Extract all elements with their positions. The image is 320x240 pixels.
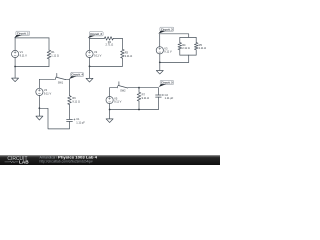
wire cap riser lower (circuit 5) <box>157 97 159 109</box>
svg-text:SW2: SW2 <box>120 90 126 93</box>
ground (circuit 2) <box>86 66 93 82</box>
wire left riser (circuit 5) <box>109 88 111 97</box>
value label R6 <box>72 96 80 103</box>
wire left lower (circuit 3) <box>159 54 161 63</box>
junction node R7 bottom (circuit 5) <box>138 109 140 111</box>
wire box top edge (circuit 3) <box>180 36 196 38</box>
ground (circuit 1) <box>12 67 19 82</box>
wire left lower (circuit 1) <box>14 57 16 66</box>
junction node (circuit 2) <box>89 66 91 68</box>
circuit 5 group <box>106 81 174 123</box>
junction node (circuit 3) <box>159 62 161 64</box>
wire left lower (circuit 5) <box>109 103 111 109</box>
wire right leg lower (circuit 3) <box>195 50 197 55</box>
wire top-left (circuit 4) <box>39 78 54 80</box>
value label C1 <box>76 117 85 124</box>
wire right upper (circuit 1) <box>48 38 50 50</box>
wire right leg upper (circuit 3) <box>195 37 197 42</box>
junction node (circuit 1) <box>14 66 16 68</box>
svg-text:2.71 Ω: 2.71 Ω <box>106 43 114 47</box>
wire left leg lower (circuit 3) <box>179 50 181 55</box>
wire left upper (circuit 2) <box>89 38 91 50</box>
resistor R5 <box>194 43 198 50</box>
wire top-mid (circuit 5) <box>128 87 139 89</box>
resistor R6 <box>68 96 72 105</box>
wire R7 upper (circuit 5) <box>138 88 140 93</box>
voltage source V2 <box>86 50 93 57</box>
wire top-right (circuit 5) <box>139 87 158 89</box>
capacitor C2 <box>156 94 164 97</box>
circuit 1 group <box>12 31 59 81</box>
value label R3 <box>125 51 133 58</box>
svg-text:LAB: LAB <box>19 160 29 165</box>
wire right riser upper (circuit 4) <box>69 79 71 95</box>
wire top-right (circuit 4) <box>66 78 70 80</box>
svg-text:9.11 V: 9.11 V <box>44 92 52 96</box>
junction node R7 top (circuit 5) <box>138 87 140 89</box>
value label C2 <box>165 93 174 100</box>
svg-text:9.11 V: 9.11 V <box>20 53 28 57</box>
svg-text:1.11 µF: 1.11 µF <box>76 121 85 125</box>
junction node (circuit 4) <box>39 107 41 109</box>
wire bottom (circuit 1) <box>15 66 49 68</box>
wire R7 lower (circuit 5) <box>138 101 140 109</box>
ground (circuit 5) <box>106 110 113 123</box>
wire top (circuit 3) <box>160 34 189 38</box>
voltage source V1 <box>12 50 19 57</box>
wire left lower (circuit 2) <box>89 57 91 66</box>
wire right lower (circuit 2) <box>121 58 123 66</box>
wire top-right (circuit 2) <box>113 37 122 39</box>
ground (circuit 3) <box>156 62 163 74</box>
wire right upper (circuit 2) <box>121 38 123 49</box>
resistor R4 <box>178 43 182 50</box>
svg-text:9.11 Ω: 9.11 Ω <box>142 96 150 100</box>
wire top (circuit 1) <box>15 37 49 39</box>
svg-text:http://circuitlab.com/c/9u2smd: http://circuitlab.com/c/9u2smdcb4qw <box>40 160 94 164</box>
svg-text:Circuit_4: Circuit_4 <box>71 73 83 77</box>
label box Circuit_2 <box>88 32 103 39</box>
wire mid riser (circuit 4) <box>69 105 71 120</box>
wire bottom (circuit 3) <box>160 61 189 63</box>
resistor R1 <box>47 50 51 59</box>
wire top-left (circuit 5) <box>110 87 117 89</box>
switch SW2 <box>118 82 128 88</box>
CircuitLab logo <box>5 156 30 165</box>
svg-text:2.11 Ω: 2.11 Ω <box>182 46 190 50</box>
wire left upper (circuit 1) <box>14 38 16 51</box>
svg-text:2.11 Ω: 2.11 Ω <box>199 46 207 50</box>
value label R4 <box>182 43 190 50</box>
wire box stem (circuit 3) <box>188 55 190 62</box>
wire bottom (circuit 2) <box>90 65 123 67</box>
svg-text:Circuit_1: Circuit_1 <box>17 32 29 36</box>
value label V4 <box>44 88 52 95</box>
wire left lower (circuit 4) <box>38 95 40 108</box>
label box Circuit_5 <box>159 81 174 88</box>
value label V2 <box>94 50 102 57</box>
value label R7 <box>142 93 150 100</box>
switch SW1 <box>55 73 65 79</box>
label box Circuit_4 <box>69 73 84 79</box>
value label R2 <box>106 40 114 47</box>
wire return path (circuit 4) <box>39 108 69 129</box>
voltage source V4 <box>36 88 43 95</box>
svg-text:9.11 Ω: 9.11 Ω <box>72 99 80 103</box>
resistor R3 <box>121 49 125 58</box>
resistor R7 <box>137 92 141 101</box>
svg-text:9.11 V: 9.11 V <box>164 50 172 54</box>
resistor R2 <box>104 37 113 41</box>
label box Circuit_1 <box>14 31 30 38</box>
wire right lower (circuit 1) <box>48 59 50 67</box>
circuit 4 group <box>36 73 85 129</box>
value label R1 <box>51 50 59 57</box>
svg-text:SW1: SW1 <box>58 82 64 85</box>
voltage source V3 <box>156 47 163 54</box>
svg-text:9.11 V: 9.11 V <box>114 100 122 104</box>
wire top-left (circuit 2) <box>90 37 105 39</box>
wire left upper (circuit 3) <box>159 34 161 47</box>
wire cap riser upper (circuit 5) <box>157 88 159 95</box>
value label V1 <box>20 50 28 57</box>
voltage source V5 <box>106 97 113 104</box>
capacitor C1 <box>67 119 76 122</box>
junction node left (circuit 5) <box>109 109 111 111</box>
wire left leg upper (circuit 3) <box>179 37 181 42</box>
circuit 3 group <box>156 27 206 74</box>
svg-text:2.11 Ω: 2.11 Ω <box>125 54 133 58</box>
svg-text:9.11 V: 9.11 V <box>94 53 102 57</box>
label box Circuit_3 <box>158 27 173 34</box>
value label V3 <box>164 46 172 53</box>
svg-text:Circuit_3: Circuit_3 <box>161 27 173 31</box>
value label R5 <box>199 43 207 50</box>
footer bar <box>0 155 220 165</box>
wire left riser (circuit 4) <box>38 79 40 88</box>
wire bottom (circuit 5) <box>110 109 159 111</box>
value label V5 <box>114 96 122 103</box>
svg-text:1.11 µF: 1.11 µF <box>165 96 174 100</box>
svg-text:Circuit_2: Circuit_2 <box>90 32 102 36</box>
svg-text:1.11 Ω: 1.11 Ω <box>51 54 59 58</box>
ground (circuit 4) <box>36 108 43 120</box>
wire box bottom edge (circuit 3) <box>180 54 196 56</box>
circuit 2 group <box>86 32 132 82</box>
